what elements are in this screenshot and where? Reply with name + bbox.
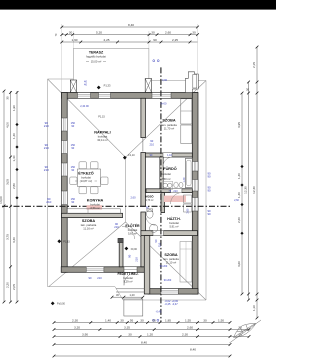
svg-text:3,35: 3,35 <box>124 326 130 330</box>
door gap H3 <box>153 231 164 236</box>
svg-text:5,81 m²: 5,81 m² <box>128 232 137 236</box>
svg-text:2,20: 2,20 <box>237 217 241 223</box>
window right-1 <box>192 162 198 172</box>
roof ridge <box>125 157 127 222</box>
svg-text:-0,47: -0,47 <box>172 302 178 306</box>
extension line wall TL <box>61 24 63 93</box>
svg-text:0,90: 0,90 <box>162 78 168 82</box>
wall left <box>62 93 68 273</box>
window bottom-left <box>86 267 104 273</box>
dim left col A <box>3 91 5 302</box>
dim top row3 <box>62 41 198 43</box>
eaves line top-right <box>149 80 187 82</box>
svg-text:4,00: 4,00 <box>5 122 9 128</box>
dim bottom row2 <box>54 329 249 331</box>
svg-text:210: 210 <box>97 276 102 280</box>
svg-text:1,40: 1,40 <box>105 319 111 323</box>
wall right <box>192 93 198 295</box>
svg-text:(13,87 m²): (13,87 m²) <box>80 179 93 183</box>
dim bottom row3 <box>54 336 249 338</box>
svg-text:210: 210 <box>44 124 49 128</box>
svg-text:210: 210 <box>114 225 119 229</box>
svg-text:210: 210 <box>150 142 155 146</box>
wall top <box>62 93 198 99</box>
washing machines <box>184 195 192 203</box>
svg-text:210: 210 <box>134 257 138 262</box>
wall D (szoba/előtér) <box>119 239 123 267</box>
svg-text:3,05: 3,05 <box>5 179 9 185</box>
svg-text:210: 210 <box>44 168 49 172</box>
level marker előtér <box>125 247 129 251</box>
svg-text:P1,33: P1,33 <box>104 84 111 88</box>
svg-text:5,20: 5,20 <box>96 31 102 35</box>
svg-text:2,80: 2,80 <box>12 183 16 189</box>
roof hip NE <box>126 81 207 158</box>
bath tub <box>185 159 192 188</box>
dim bottom row1 <box>54 322 230 324</box>
svg-text:30: 30 <box>203 319 207 323</box>
svg-text:1,20: 1,20 <box>129 293 135 297</box>
door gap H2 <box>171 189 182 193</box>
pink highlight mosó <box>164 196 186 202</box>
svg-text:2,20: 2,20 <box>5 282 9 288</box>
svg-text:1,40: 1,40 <box>12 133 16 139</box>
svg-text:30: 30 <box>120 319 124 323</box>
dim right col C <box>256 47 258 318</box>
circle symbol előtér <box>150 224 158 232</box>
svg-text:1,90: 1,90 <box>12 105 16 111</box>
window left-2 <box>62 141 68 154</box>
level marker bottom-left <box>51 302 55 306</box>
door arc entry <box>124 272 137 285</box>
svg-text:2,15: 2,15 <box>252 62 256 68</box>
svg-text:HÁZT.H.: HÁZT.H. <box>167 216 180 221</box>
window top-1 <box>78 93 91 99</box>
terrace post 2 <box>145 79 151 93</box>
extension line terrace R <box>148 31 150 49</box>
level marker terrace <box>97 86 101 90</box>
svg-text:210: 210 <box>46 200 51 204</box>
wall C (wc right) <box>161 193 165 213</box>
svg-text:burkolat: burkolat <box>161 172 171 176</box>
door arc házt <box>170 193 181 204</box>
door gap H1 <box>163 153 172 157</box>
svg-text:ÉTKEZŐ: ÉTKEZŐ <box>78 170 93 175</box>
svg-text:0+00: 0+00 <box>161 101 167 105</box>
wall bottom-right <box>148 289 198 295</box>
wall A mid <box>141 153 146 207</box>
svg-text:90·200: 90·200 <box>164 279 172 282</box>
svg-text:30,11 m²: 30,11 m² <box>97 138 108 142</box>
svg-text:11,70 m²: 11,70 m² <box>164 126 175 130</box>
svg-text:lam. parketta: lam. parketta <box>161 123 177 127</box>
svg-text:5,29 m²: 5,29 m² <box>123 279 132 283</box>
roof hip SW <box>49 222 126 287</box>
porch stoop <box>124 299 143 316</box>
svg-text:2,60: 2,60 <box>234 199 239 202</box>
window top-2 <box>99 93 111 99</box>
window left-4 <box>62 191 68 205</box>
north arrow <box>230 320 262 343</box>
svg-text:lam. parketta: lam. parketta <box>81 223 97 227</box>
svg-text:3,90: 3,90 <box>82 333 88 337</box>
svg-text:12,30: 12,30 <box>252 186 256 194</box>
svg-text:90·200: 90·200 <box>160 265 168 268</box>
roof hip SE <box>126 222 207 300</box>
dining chairs <box>79 162 87 169</box>
window left-3 <box>62 163 68 176</box>
svg-text:8,40: 8,40 <box>141 341 147 345</box>
dim left col B <box>10 91 12 302</box>
svg-text:11,10 m²: 11,10 m² <box>166 261 177 265</box>
svg-text:NAPPALI: NAPPALI <box>94 130 110 134</box>
extension line wall TR <box>197 24 199 93</box>
svg-text:5,91 m²: 5,91 m² <box>169 225 178 229</box>
eaves jog bottom <box>115 287 123 300</box>
svg-text:burkolat: burkolat <box>98 134 108 138</box>
wall A upper (nappali/szoba) <box>141 98 146 137</box>
wall A lower <box>141 212 146 267</box>
svg-text:30: 30 <box>128 333 132 337</box>
svg-text:1,55: 1,55 <box>185 319 191 323</box>
svg-text:SZOBA: SZOBA <box>164 253 178 257</box>
svg-text:90: 90 <box>207 175 211 179</box>
svg-text:15,00 m²: 15,00 m² <box>91 59 102 63</box>
dim left col C <box>16 91 18 302</box>
bed szoba3 <box>180 242 192 283</box>
svg-text:8,40: 8,40 <box>128 23 134 27</box>
wall H3 (házt/szoba) <box>141 231 198 236</box>
eaves line left <box>47 79 49 287</box>
dim right col A <box>241 93 243 294</box>
svg-text:2,60: 2,60 <box>130 195 136 199</box>
chimney <box>186 72 199 93</box>
svg-text:2,25: 2,25 <box>103 38 109 42</box>
roof hip NW <box>48 79 126 157</box>
svg-text:ELŐTÉR: ELŐTÉR <box>125 223 140 228</box>
svg-text:30: 30 <box>151 31 155 35</box>
svg-text:6,56 m²: 6,56 m² <box>90 206 99 210</box>
window left-1 <box>62 118 68 131</box>
svg-text:75 · 210: 75 · 210 <box>168 190 178 193</box>
door leaf szoba1 <box>142 138 144 152</box>
svg-text:P±0,00: P±0,00 <box>57 302 66 305</box>
wall H1 (szoba/fürdő) <box>145 153 192 157</box>
svg-text:-0,45: -0,45 <box>156 311 162 314</box>
section line vertical <box>160 67 162 322</box>
door arc fürdő <box>163 157 173 167</box>
svg-text:2,05: 2,05 <box>12 284 16 290</box>
eaves line bottom-right <box>123 299 206 301</box>
svg-text:90: 90 <box>207 212 211 216</box>
svg-text:SZOBA: SZOBA <box>162 119 176 123</box>
dim top row2 <box>62 34 198 36</box>
eaves line right <box>205 81 207 301</box>
door post D <box>118 238 123 243</box>
desk szoba1 <box>181 125 192 144</box>
svg-text:1,40: 1,40 <box>237 173 241 179</box>
svg-text:1,90: 1,90 <box>71 38 77 42</box>
dim bottom row5 <box>54 355 230 357</box>
svg-text:1,40: 1,40 <box>12 155 16 161</box>
svg-text:P1,15: P1,15 <box>63 240 70 243</box>
dim bottom row4 <box>54 344 230 346</box>
svg-text:2,60: 2,60 <box>187 208 190 213</box>
svg-text:-0,45: -0,45 <box>165 302 171 306</box>
wc toilet <box>147 210 154 218</box>
section line horizontal <box>2 205 231 207</box>
svg-text:2,30: 2,30 <box>72 319 78 323</box>
svg-text:3,20: 3,20 <box>74 326 80 330</box>
svg-text:3,95: 3,95 <box>237 122 241 128</box>
svg-text:2,60: 2,60 <box>187 326 193 330</box>
svg-text:90: 90 <box>153 38 157 42</box>
window bottom-right <box>161 289 178 295</box>
level marker left wall <box>57 239 61 243</box>
svg-text:3,60: 3,60 <box>237 261 241 267</box>
stoop dim <box>112 296 143 298</box>
porch floor edge <box>116 288 144 290</box>
eaves line top-left <box>48 78 74 80</box>
svg-text:12,30: 12,30 <box>243 186 247 194</box>
svg-text:2,25: 2,25 <box>172 38 178 42</box>
svg-text:2,60: 2,60 <box>165 31 171 35</box>
dim right col B <box>248 82 250 300</box>
svg-text:30: 30 <box>246 88 250 92</box>
level marker node1 <box>123 156 127 160</box>
window right-3 <box>192 198 198 212</box>
svg-text:burkolat: burkolat <box>128 228 138 232</box>
eaves line bottom-left <box>48 286 115 288</box>
svg-text:P1,15: P1,15 <box>98 116 105 119</box>
svg-text:11,16 m²: 11,16 m² <box>83 226 94 230</box>
wall bottom-left <box>61 267 144 273</box>
svg-text:1,10: 1,10 <box>252 305 256 311</box>
door arc szoba2 <box>122 226 135 239</box>
svg-text:1,40: 1,40 <box>183 177 186 182</box>
svg-text:95: 95 <box>152 319 156 323</box>
extension line terrace L <box>72 31 74 49</box>
window right-2 <box>192 180 198 192</box>
svg-text:TERASZ: TERASZ <box>89 50 104 54</box>
svg-text:1,50: 1,50 <box>218 319 224 323</box>
svg-text:90: 90 <box>127 254 131 257</box>
wall E (porch/szoba) <box>144 236 150 294</box>
svg-text:7,50 m²: 7,50 m² <box>161 177 170 181</box>
svg-text:burkolat: burkolat <box>90 202 100 206</box>
window top-3 <box>152 93 171 99</box>
svg-text:burkolat: burkolat <box>169 221 179 225</box>
svg-text:90: 90 <box>89 276 92 280</box>
wall H4 (konyha bottom) <box>62 213 123 217</box>
svg-text:1,40: 1,40 <box>237 192 241 198</box>
svg-text:2,40·90: 2,40·90 <box>80 105 89 108</box>
svg-text:30: 30 <box>5 96 9 100</box>
svg-text:90: 90 <box>207 189 211 193</box>
svg-text:8,40: 8,40 <box>190 348 196 352</box>
svg-text:1,85: 1,85 <box>165 319 171 323</box>
pink highlight kitchen <box>87 205 103 209</box>
svg-text:3,40: 3,40 <box>12 237 16 243</box>
svg-text:1,75 m²: 1,75 m² <box>146 199 154 202</box>
svg-text:30: 30 <box>140 319 144 323</box>
terrace outline <box>73 49 148 93</box>
wardrobe szoba1 <box>181 99 192 124</box>
svg-text:13,00: 13,00 <box>0 196 3 204</box>
wall B corridor <box>160 157 163 189</box>
svg-text:KONYHA: KONYHA <box>87 198 104 202</box>
svg-text:fagyálló burkolat: fagyálló burkolat <box>86 55 106 59</box>
svg-text:210: 210 <box>44 146 49 150</box>
svg-text:3,75: 3,75 <box>5 234 9 240</box>
svg-text:95: 95 <box>130 319 134 323</box>
door gap entry <box>124 267 137 273</box>
svg-text:30: 30 <box>192 31 196 35</box>
wall H2 (fürdő bottom) <box>146 189 192 193</box>
twin washbasins <box>163 183 167 187</box>
svg-text:30: 30 <box>69 31 73 35</box>
dining table <box>78 169 101 187</box>
svg-text:burkolat: burkolat <box>81 175 91 179</box>
svg-text:burkolat: burkolat <box>123 276 133 280</box>
svg-text:1,20: 1,20 <box>147 333 153 337</box>
svg-text:210: 210 <box>158 242 162 247</box>
door arc wc <box>146 215 156 225</box>
toilet+bidet fürdő <box>174 182 178 188</box>
svg-text:FEDETT BEJ.: FEDETT BEJ. <box>117 272 138 276</box>
svg-text:lam. parketta: lam. parketta <box>163 257 179 261</box>
dim top overall <box>62 26 198 28</box>
terrace post 1 <box>70 80 76 93</box>
svg-text:±0,00: ±0,00 <box>131 248 138 251</box>
svg-text:1,10: 1,10 <box>167 154 172 157</box>
kitchen counter <box>67 209 120 214</box>
svg-text:2,30: 2,30 <box>182 333 188 337</box>
svg-text:SZOBA: SZOBA <box>82 219 96 223</box>
svg-text:F1,10: F1,10 <box>128 154 135 157</box>
svg-text:FÜRDŐ: FÜRDŐ <box>163 166 177 171</box>
top black band <box>0 0 276 10</box>
